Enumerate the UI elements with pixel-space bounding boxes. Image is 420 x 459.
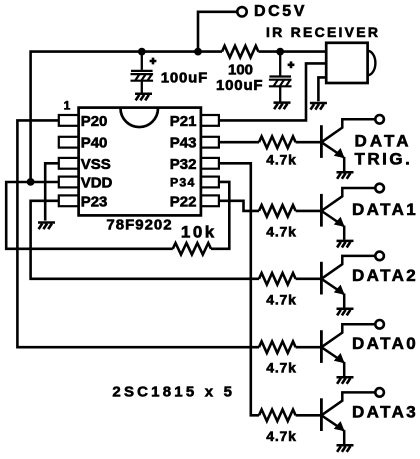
svg-text:P20: P20 — [81, 113, 108, 130]
svg-text:P32: P32 — [170, 156, 197, 173]
svg-text:4.7k: 4.7k — [266, 291, 296, 307]
svg-text:P34: P34 — [170, 175, 195, 189]
svg-text:P22: P22 — [170, 193, 197, 210]
svg-text:VDD: VDD — [81, 175, 113, 192]
svg-text:100uF: 100uF — [216, 77, 263, 94]
svg-text:IR RECEIVER: IR RECEIVER — [266, 24, 380, 40]
svg-text:P43: P43 — [170, 135, 197, 152]
svg-text:78F9202: 78F9202 — [106, 216, 172, 233]
svg-text:P23: P23 — [81, 193, 108, 210]
svg-text:DATA: DATA — [355, 132, 412, 151]
svg-text:4.7k: 4.7k — [266, 428, 296, 444]
svg-text:1: 1 — [64, 98, 71, 112]
svg-text:DATA2: DATA2 — [352, 266, 418, 285]
svg-text:DATA0: DATA0 — [352, 334, 418, 353]
svg-text:4.7k: 4.7k — [266, 152, 296, 168]
svg-text:VSS: VSS — [81, 156, 111, 173]
svg-text:DC5V: DC5V — [254, 3, 307, 20]
svg-text:TRIG.: TRIG. — [355, 150, 413, 169]
svg-text:DATA3: DATA3 — [352, 403, 418, 422]
svg-text:100uF: 100uF — [161, 70, 208, 87]
svg-text:P21: P21 — [170, 113, 197, 130]
svg-text:P40: P40 — [81, 135, 108, 152]
svg-text:10k: 10k — [181, 223, 217, 242]
svg-text:4.7k: 4.7k — [266, 360, 296, 376]
svg-text:4.7k: 4.7k — [266, 223, 296, 239]
svg-text:DATA1: DATA1 — [352, 200, 418, 219]
svg-text:2SC1815 x 5: 2SC1815 x 5 — [112, 384, 235, 401]
